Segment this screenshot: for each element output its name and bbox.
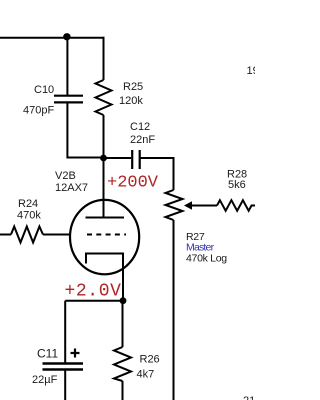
svg-text:12AX7: 12AX7 — [55, 182, 88, 194]
svg-text:120k: 120k — [119, 95, 143, 107]
svg-text:470pF: 470pF — [23, 105, 54, 117]
svg-text:470k Log: 470k Log — [186, 253, 227, 265]
svg-text:19: 19 — [247, 65, 256, 77]
svg-text:V2B: V2B — [55, 170, 76, 182]
svg-text:C12: C12 — [130, 121, 150, 133]
svg-text:4k7: 4k7 — [137, 369, 155, 381]
svg-text:21: 21 — [243, 395, 255, 400]
svg-text:R25: R25 — [123, 81, 143, 93]
svg-text:R26: R26 — [140, 354, 160, 366]
svg-text:470k: 470k — [17, 210, 41, 222]
svg-text:R24: R24 — [18, 198, 38, 210]
svg-text:5k6: 5k6 — [228, 179, 246, 191]
svg-text:C11: C11 — [37, 347, 58, 361]
svg-text:+2.0V: +2.0V — [65, 282, 122, 302]
svg-text:+200V: +200V — [107, 174, 159, 193]
svg-text:22µF: 22µF — [32, 374, 58, 386]
svg-text:22nF: 22nF — [130, 134, 155, 146]
svg-text:C10: C10 — [34, 84, 54, 96]
